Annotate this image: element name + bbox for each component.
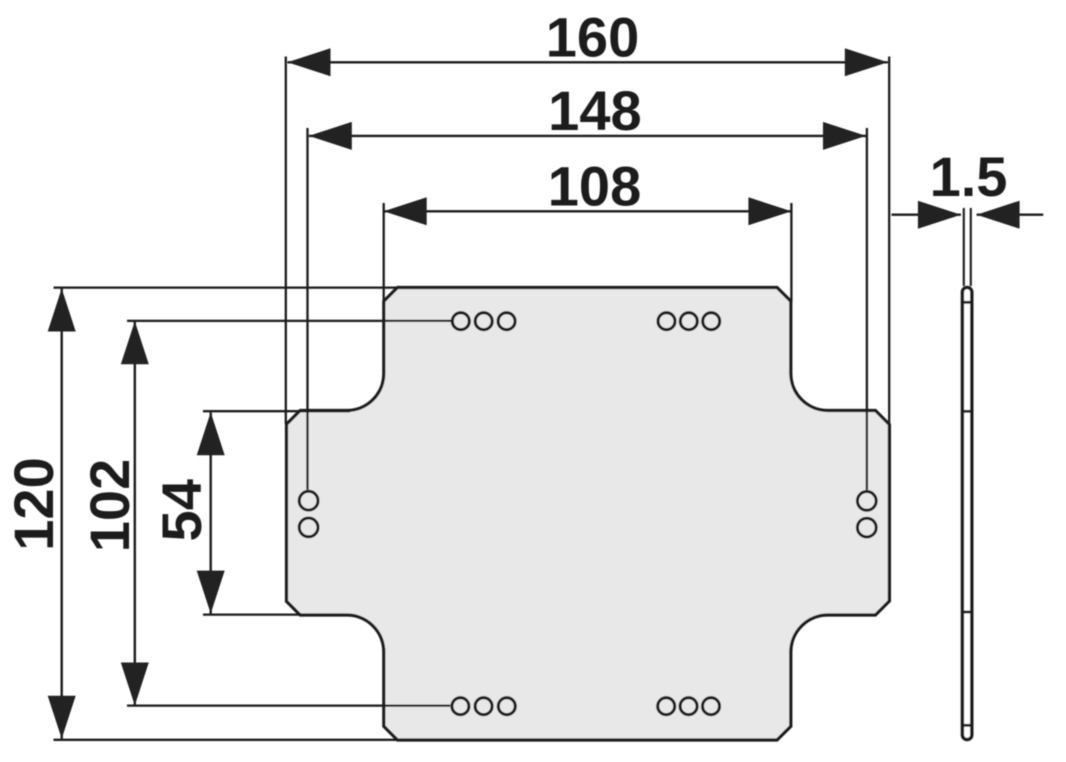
dimension 148: dimension line [309, 135, 866, 137]
dimension 1.5: left dimension line with arrowhead pointing right [892, 201, 961, 229]
dimension 54 left: top arrowhead [197, 412, 225, 455]
dimension 120 left: dimension line [61, 289, 63, 739]
side view edge tick upper step [963, 410, 971, 413]
svg-text:108: 108 [548, 154, 641, 217]
dimension 1.5: extension lines [964, 208, 971, 286]
side view strip outline [962, 287, 971, 739]
svg-text:1.5: 1.5 [930, 145, 1008, 208]
dimension 54 left: bottom arrowhead [197, 571, 225, 614]
dimension 120 left: top arrowhead [48, 289, 76, 332]
dimension 160 top: dimension line [288, 61, 888, 63]
dimension 108: dimension line [384, 210, 792, 212]
dimension 102 left: top arrowhead [121, 321, 149, 364]
dimension 1.5: right dimension line with arrowhead pointing left [977, 201, 1044, 229]
dimension 102 left: extension lines [127, 321, 452, 706]
dimension 108: right arrowhead [748, 197, 791, 225]
hole group bottom-left (3 holes) [452, 698, 515, 715]
hole group top-right (3 holes) [658, 313, 720, 330]
dimension 160 top: extension lines [286, 57, 889, 425]
svg-text:102: 102 [78, 459, 141, 552]
side hole pair left [299, 491, 318, 536]
svg-text:54: 54 [150, 479, 213, 541]
svg-text:148: 148 [548, 79, 641, 142]
hole group bottom-right (3 holes) [658, 698, 720, 715]
plate front view outline [287, 288, 890, 741]
dimension 160 top: left arrowhead [288, 48, 331, 76]
side hole pair right [857, 492, 876, 537]
dimension 108: extension lines [384, 203, 792, 302]
dimension 102 left: bottom arrowhead [121, 663, 149, 706]
dimension 54 left: dimension line [209, 412, 211, 613]
svg-text:120: 120 [2, 457, 65, 550]
dimension 54 left: extension lines [203, 411, 350, 614]
dimension 120 left: extension lines [54, 288, 398, 740]
dimension 148: right arrowhead [823, 122, 866, 150]
dimension 148: extension lines [308, 128, 867, 490]
dimension 148: left arrowhead [309, 122, 352, 150]
side view edge tick lower step [963, 611, 971, 614]
hole group top-left (3 holes) [452, 313, 515, 330]
dimension 120 left: bottom arrowhead [48, 696, 76, 739]
dimension 160 top: right arrowhead [845, 48, 888, 76]
svg-text:160: 160 [546, 6, 639, 69]
side view edge tick top chamfer [963, 301, 971, 304]
side view edge tick bottom chamfer [963, 724, 971, 727]
dimension 102 left: dimension line [134, 321, 136, 705]
dimension 108: left arrowhead [384, 197, 427, 225]
